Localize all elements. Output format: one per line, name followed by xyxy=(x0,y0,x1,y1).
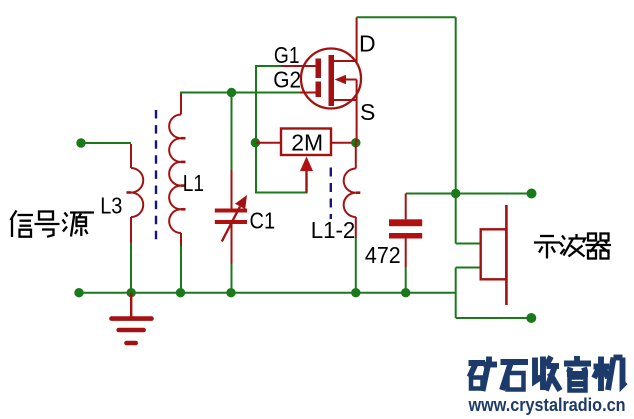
wire: 472 bottom to ground bus xyxy=(405,267,407,293)
svg-text:G1: G1 xyxy=(274,42,300,68)
svg-text:L1: L1 xyxy=(183,170,204,196)
pin G1 xyxy=(281,65,316,67)
wire: C1 bottom to ground bus xyxy=(231,264,233,293)
svg-text:G2: G2 xyxy=(273,66,301,92)
wire: L1 top to G2 of U1 xyxy=(180,92,300,94)
wire: signal source top lead xyxy=(81,142,131,144)
node: bus L1 junction xyxy=(176,288,185,297)
coupling dashed line L1-2 xyxy=(330,168,332,220)
pin S lead down xyxy=(356,100,358,143)
wire: L1-2 bottom to ground bus xyxy=(355,238,357,293)
wire: junction down to C1 xyxy=(231,93,233,171)
pin G2 xyxy=(300,92,316,94)
wire: scope lower vertical xyxy=(455,268,457,319)
inductor L3 xyxy=(127,144,144,243)
wire: right vertical from top xyxy=(455,17,457,243)
wire: scope lower stub xyxy=(456,267,481,269)
wire: G1 net bottom horizontal to 2M wiper xyxy=(256,192,308,194)
svg-text:472: 472 xyxy=(365,242,401,268)
svg-text:C1: C1 xyxy=(250,207,276,233)
earphone/scope transducer symbol xyxy=(481,205,507,305)
node: bottom right open terminal xyxy=(526,313,536,323)
svg-text:www.crystalradio.cn: www.crystalradio.cn xyxy=(468,395,626,415)
svg-text:L3: L3 xyxy=(100,192,122,218)
node: junction output/right vertical xyxy=(451,189,460,198)
node: bus C1 junction xyxy=(226,288,235,297)
node: bus 472 junction xyxy=(401,288,410,297)
wire: bottom right horizontal xyxy=(456,317,532,319)
svg-text:S: S xyxy=(360,99,375,125)
node: S / 2M right junction xyxy=(351,138,360,147)
wire: ground bus xyxy=(79,292,456,294)
node: bus L1-2 junction xyxy=(351,288,360,297)
logo text 矿石收音机 xyxy=(469,356,626,391)
svg-text:2M: 2M xyxy=(291,129,323,155)
node: bus ground junction xyxy=(127,288,136,297)
resistor 2M (with wiper arrow) xyxy=(251,129,356,193)
wire: scope upper stub xyxy=(456,243,481,245)
inductor L1-2 xyxy=(344,143,361,238)
label 信号源 (signal source) xyxy=(11,211,95,238)
capacitor 472 xyxy=(389,194,422,268)
svg-text:D: D xyxy=(359,31,376,57)
node: signal source top terminal xyxy=(76,138,85,147)
node: junction L1/C1/G2 xyxy=(227,88,236,97)
node: output open terminal xyxy=(527,189,537,199)
coupling dashed line L3/L1 xyxy=(155,110,157,242)
wire: L3 bottom to ground bus xyxy=(130,243,132,293)
svg-text:L1-2: L1-2 xyxy=(311,217,356,243)
ground xyxy=(112,293,152,343)
node: bus terminal left xyxy=(74,288,83,297)
capacitor C1 (variable) xyxy=(215,170,247,264)
wire: drain top wire xyxy=(357,16,456,18)
transistor U1 dual-gate MOSFET xyxy=(281,17,361,142)
wire: L1 bottom to ground bus xyxy=(180,246,182,293)
inductor L1 xyxy=(169,93,185,246)
wire: G1 net horizontal xyxy=(255,65,281,67)
wire: G1 net vertical xyxy=(255,65,257,194)
label 示波器 (oscilloscope) xyxy=(534,234,611,259)
wire: mid horizontal output net xyxy=(406,193,532,195)
